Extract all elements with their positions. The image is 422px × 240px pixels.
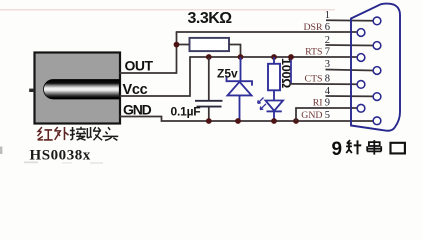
wire RI riser and RI line (pin 9) bbox=[296, 108, 357, 121]
IR receiver module body bbox=[35, 53, 121, 124]
value label 3.3KΩ bbox=[188, 10, 233, 27]
svg-text:3: 3 bbox=[325, 59, 330, 70]
svg-text:7: 7 bbox=[325, 47, 330, 58]
caption 外 bbox=[54, 127, 68, 140]
DB9 connector J1 outline bbox=[351, 4, 400, 131]
zener D1 Z5v top lead bbox=[240, 57, 242, 81]
wire RTS line (pin 7) bbox=[190, 56, 357, 58]
resistor R1 3.3K body bbox=[190, 38, 230, 51]
pin number 2 bbox=[325, 35, 330, 46]
net label GND bbox=[301, 110, 322, 121]
pin label OUT bbox=[125, 58, 154, 74]
caption 串 bbox=[367, 140, 381, 155]
wire GND from receiver bbox=[120, 117, 374, 122]
IR receiver lens barrel bbox=[44, 80, 120, 100]
junction dot zener top bbox=[238, 54, 244, 60]
value label 0.1µF bbox=[171, 105, 201, 119]
net label RTS bbox=[305, 47, 322, 58]
svg-text:RTS: RTS bbox=[305, 47, 322, 58]
value label 100Ω rotated bbox=[279, 58, 293, 88]
pin number 6 bbox=[325, 22, 330, 33]
svg-text:3.3KΩ: 3.3KΩ bbox=[188, 10, 233, 27]
caption HS0038x bbox=[30, 148, 91, 164]
pin label Vcc bbox=[123, 82, 148, 98]
svg-text:9: 9 bbox=[325, 98, 330, 109]
svg-text:5: 5 bbox=[325, 110, 330, 121]
stub pin 4 bbox=[326, 95, 374, 97]
capacitor C1 top lead bbox=[208, 57, 210, 100]
resistor R1 right lead bbox=[229, 45, 241, 58]
wire RTS to CTS tie riser bbox=[290, 57, 292, 84]
svg-text:DSR: DSR bbox=[303, 22, 323, 33]
DB9 pin 2 hole bbox=[373, 42, 381, 50]
DB9 pin 6 hole bbox=[357, 29, 365, 37]
caption 收 bbox=[87, 127, 102, 140]
svg-text:CTS: CTS bbox=[305, 74, 323, 85]
wire node A to DSR line riser bbox=[176, 32, 178, 45]
LED D2 triangle bbox=[266, 101, 284, 111]
junction dot CTS tie bbox=[288, 54, 294, 60]
svg-text:8: 8 bbox=[325, 74, 330, 85]
IR receiver left lead tick bbox=[29, 89, 34, 92]
junction dot cap top bbox=[206, 54, 212, 60]
DB9 pin 3 hole bbox=[373, 67, 381, 75]
caption 针 bbox=[346, 140, 361, 154]
LED D2 cathode bar bbox=[267, 110, 282, 112]
svg-text:OUT: OUT bbox=[125, 58, 154, 74]
junction dot 100R top bbox=[271, 54, 277, 60]
stub pin 3 bbox=[326, 70, 374, 71]
caption 接 bbox=[70, 127, 86, 140]
stub pin 2 bbox=[326, 44, 374, 47]
resistor R2 100R top lead bbox=[273, 57, 275, 64]
svg-text:RI: RI bbox=[313, 98, 323, 109]
scan artifact smudges bottom-left bbox=[24, 162, 103, 164]
svg-text:4: 4 bbox=[325, 86, 331, 97]
pin number 7 bbox=[325, 47, 330, 58]
junction dot RI tie bbox=[293, 118, 299, 124]
scan artifact left-edge sliver bbox=[0, 147, 2, 155]
DB9 pin 1 hole bbox=[373, 17, 381, 25]
caption 9 of 9针串口 bbox=[332, 139, 343, 160]
svg-text:GND: GND bbox=[123, 102, 152, 118]
pin number 4 bbox=[325, 86, 331, 97]
pin label GND bbox=[123, 102, 152, 118]
wire OUT horizontal bbox=[120, 72, 177, 74]
svg-text:6: 6 bbox=[325, 22, 330, 33]
resistor R1 left lead bbox=[179, 44, 190, 46]
LED D2 bottom lead bbox=[273, 111, 275, 121]
capacitor C1 plates bbox=[195, 101, 223, 107]
wire CTS line (pin 8) bbox=[290, 83, 357, 85]
zener D1 cathode bar with bent ends bbox=[227, 77, 253, 86]
stub pin 1 bbox=[326, 19, 373, 22]
junction dot LED bottom bbox=[271, 118, 277, 124]
DB9 pin 4 hole bbox=[373, 93, 381, 101]
node A junction dot bbox=[174, 42, 180, 48]
capacitor C1 bottom lead bbox=[208, 107, 210, 121]
DB9 pin 8 hole bbox=[357, 81, 365, 89]
wire Vcc riser bbox=[120, 56, 191, 96]
value label Z5v bbox=[217, 67, 238, 81]
DB9 pin 9 hole bbox=[357, 104, 365, 112]
svg-text:Z5v: Z5v bbox=[217, 67, 238, 81]
svg-text:2: 2 bbox=[325, 35, 330, 46]
svg-text:0.1µF: 0.1µF bbox=[171, 105, 201, 119]
junction dot zener bottom bbox=[235, 118, 241, 124]
pin number 1 bbox=[325, 10, 330, 21]
pin number 3 bbox=[325, 59, 330, 70]
svg-text:1: 1 bbox=[325, 10, 330, 21]
caption 头 bbox=[103, 127, 119, 140]
caption 口 bbox=[391, 143, 405, 154]
DB9 pin 5 hole bbox=[373, 117, 381, 125]
caption 红 bbox=[38, 127, 53, 140]
LED D2 top lead bbox=[273, 90, 275, 100]
net label DSR bbox=[303, 22, 323, 33]
pin number 5 bbox=[325, 110, 330, 121]
zener D1 bottom lead bbox=[239, 95, 241, 121]
junction dot cap bottom bbox=[206, 118, 212, 124]
wire DSR line (pin 6) bbox=[176, 31, 357, 33]
svg-text:HS0038x: HS0038x bbox=[30, 148, 91, 164]
net label RI bbox=[313, 98, 323, 109]
net label CTS bbox=[305, 74, 323, 85]
zener D1 triangle bbox=[228, 82, 252, 96]
svg-text:GND: GND bbox=[301, 110, 322, 121]
pin number 9 bbox=[325, 98, 330, 109]
DB9 pin 7 hole bbox=[357, 54, 365, 62]
wire OUT riser to node A bbox=[176, 45, 178, 74]
resistor R2 100R body bbox=[268, 64, 280, 91]
svg-text:9: 9 bbox=[332, 139, 343, 160]
LED D2 emission arrows bbox=[258, 98, 266, 110]
pin number 8 bbox=[325, 74, 330, 85]
scan artifact top pink line bbox=[0, 9, 335, 10]
